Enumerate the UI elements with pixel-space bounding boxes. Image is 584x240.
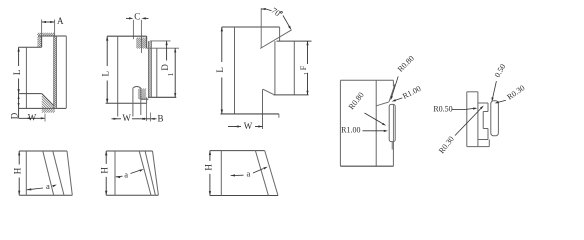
dimension D — [18, 94, 20, 119]
svg-text:H: H — [203, 164, 213, 171]
groove detail with radii, figure 4 — [340, 54, 422, 166]
svg-text:A: A — [57, 16, 64, 26]
svg-text:R0.50: R0.50 — [433, 104, 452, 113]
pill (o-ring cord) — [491, 101, 499, 136]
svg-text:L: L — [215, 67, 225, 73]
seal profile edges — [107, 35, 146, 37]
svg-text:R1.00: R1.00 — [341, 126, 360, 135]
angle a leader — [27, 188, 32, 190]
extension lines for C — [132, 20, 134, 39]
svg-text:a: a — [46, 181, 50, 191]
dimension B — [147, 118, 157, 120]
svg-text:1: 1 — [167, 72, 175, 76]
svg-text:W: W — [122, 113, 131, 123]
svg-text:H: H — [13, 167, 23, 174]
dimension L — [221, 27, 223, 62]
dimension F1 — [307, 41, 309, 64]
dimension W — [228, 126, 241, 128]
hatched band right — [147, 41, 149, 97]
dimension D — [166, 41, 168, 61]
hatched bottom strip — [42, 108, 44, 110]
svg-text:C: C — [134, 11, 140, 21]
svg-text:1: 1 — [303, 72, 310, 75]
svg-text:H: H — [100, 167, 110, 174]
dimension L — [18, 47, 20, 66]
svg-text:a: a — [124, 169, 128, 179]
svg-text:W: W — [244, 121, 253, 131]
angle a leader — [231, 174, 235, 176]
wiper seal cross-section, figure 1 — [9, 16, 66, 122]
hatched metal case: top strip — [37, 33, 39, 35]
svg-text:F: F — [298, 65, 308, 70]
main block — [467, 91, 478, 93]
svg-text:D: D — [9, 112, 19, 119]
groove bracket — [478, 102, 488, 104]
seal profile edges — [38, 35, 66, 37]
lower figure 3: slant section with angle a — [203, 151, 278, 196]
hatched long right band — [53, 36, 55, 108]
svg-text:a: a — [247, 169, 251, 179]
hatch near notch — [136, 38, 138, 40]
profile edges — [222, 26, 280, 28]
dimension L — [106, 36, 108, 66]
lower figure 1: slant section with angle a — [13, 151, 73, 195]
angle a leader — [116, 176, 121, 178]
hatch at tower — [138, 89, 140, 91]
small groove detail with radii, figure 5 — [433, 62, 526, 155]
svg-text:B: B — [157, 113, 163, 123]
dimension W — [112, 118, 122, 120]
dimension W — [19, 117, 45, 119]
lower figure 2: slant section with angle a — [100, 151, 159, 195]
svg-text:D: D — [160, 64, 170, 71]
svg-text:L: L — [101, 71, 111, 77]
outer rectangle — [340, 79, 393, 81]
wiper with 70 deg lip, figure 3 — [215, 5, 311, 131]
inner lip (tower) — [132, 88, 134, 117]
double wiper cross-section, figure 2 — [101, 11, 179, 123]
pill slot crossing right edge — [389, 104, 395, 141]
chamfer lines — [389, 84, 395, 102]
svg-text:L: L — [12, 70, 22, 76]
extension lines for A — [41, 20, 43, 36]
chamfer hatch — [42, 96, 54, 108]
svg-text:W: W — [28, 112, 37, 122]
70 degree angle annotation — [261, 8, 266, 10]
hatched metal case: left band — [37, 36, 39, 38]
dimension C — [126, 17, 131, 19]
dimension D1 — [174, 48, 176, 97]
dimension A — [42, 21, 55, 23]
